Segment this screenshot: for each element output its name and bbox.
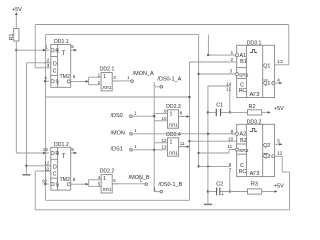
- svg-text:11: 11: [180, 141, 185, 146]
- svg-text:R3: R3: [251, 182, 258, 188]
- svg-text:/MON_A: /MON_A: [133, 71, 154, 77]
- svg-text:DD2.2: DD2.2: [100, 169, 115, 175]
- svg-text:12: 12: [44, 160, 50, 165]
- svg-text:D: D: [53, 164, 57, 170]
- svg-text:C: C: [53, 68, 57, 74]
- svg-text:DD1.1: DD1.1: [54, 39, 69, 45]
- svg-text:C: C: [53, 172, 57, 178]
- svg-text:RC: RC: [239, 169, 247, 175]
- svg-text:12: 12: [277, 151, 283, 157]
- svg-text:/DS1: /DS1: [111, 147, 123, 153]
- svg-text:1: 1: [170, 111, 173, 117]
- svg-text:R: R: [55, 48, 59, 54]
- svg-text:13: 13: [43, 147, 49, 152]
- svg-text:SR2: SR2: [239, 148, 249, 154]
- svg-text:S: S: [55, 182, 59, 188]
- svg-text:/DS0-1_A: /DS0-1_A: [157, 76, 181, 82]
- svg-text:Q2: Q2: [263, 143, 270, 149]
- svg-text:T: T: [62, 51, 66, 57]
- svg-text:/MON_B: /MON_B: [129, 175, 150, 181]
- svg-text:SR1: SR1: [239, 72, 249, 78]
- svg-text:АГ3: АГ3: [250, 92, 260, 98]
- svg-text:/MON: /MON: [111, 131, 125, 137]
- svg-text:+5V: +5V: [12, 7, 22, 13]
- svg-text:1: 1: [103, 176, 106, 182]
- svg-text:D: D: [53, 61, 57, 67]
- svg-text:ТМ2: ТМ2: [60, 177, 70, 183]
- svg-text:DD1.2: DD1.2: [54, 142, 69, 148]
- svg-text:DD2.4: DD2.4: [166, 132, 181, 138]
- svg-text:1: 1: [103, 74, 106, 80]
- svg-text:10: 10: [161, 116, 167, 121]
- svg-text:R1: R1: [9, 33, 15, 40]
- svg-text:11: 11: [45, 166, 50, 171]
- svg-text:15: 15: [226, 86, 232, 91]
- svg-text:DD2.3: DD2.3: [166, 104, 181, 110]
- svg-text:13: 13: [161, 144, 167, 149]
- svg-text:C1: C1: [216, 102, 223, 108]
- svg-text:ЛЛ1: ЛЛ1: [102, 85, 111, 91]
- svg-text:S: S: [55, 80, 59, 86]
- svg-text:ЛЛ1: ЛЛ1: [102, 187, 111, 193]
- svg-text:+5V: +5V: [274, 184, 284, 190]
- svg-text:Q1: Q1: [263, 81, 270, 87]
- svg-text:12: 12: [161, 138, 167, 143]
- svg-text:1: 1: [170, 139, 173, 145]
- svg-text:11: 11: [227, 144, 232, 149]
- svg-text:R: R: [55, 151, 59, 157]
- svg-text:DD3.1: DD3.1: [247, 40, 262, 46]
- svg-text:ЛЛ1: ЛЛ1: [169, 150, 178, 156]
- svg-text:B2: B2: [240, 138, 247, 144]
- svg-text:RC: RC: [239, 88, 247, 94]
- svg-text:T: T: [62, 154, 66, 160]
- svg-text:Q1: Q1: [263, 64, 270, 70]
- svg-text:/DS0: /DS0: [111, 113, 123, 119]
- svg-text:C2: C2: [216, 182, 223, 188]
- svg-text:R2: R2: [249, 104, 256, 110]
- svg-text:ЛЛ1: ЛЛ1: [169, 122, 178, 128]
- svg-text:A2: A2: [240, 132, 247, 138]
- svg-text:ТМ2: ТМ2: [60, 74, 70, 80]
- svg-text:DD2.1: DD2.1: [100, 67, 115, 73]
- svg-text:10: 10: [42, 178, 48, 183]
- svg-text:13: 13: [277, 59, 283, 65]
- svg-text:АГ3: АГ3: [250, 171, 260, 177]
- svg-text:/DS0-1_B: /DS0-1_B: [158, 182, 182, 188]
- svg-text:+5V: +5V: [274, 106, 284, 112]
- svg-text:B1: B1: [240, 59, 247, 65]
- svg-text:10: 10: [228, 136, 234, 141]
- svg-text:Q2: Q2: [263, 154, 270, 160]
- svg-text:DD3.2: DD3.2: [247, 119, 262, 125]
